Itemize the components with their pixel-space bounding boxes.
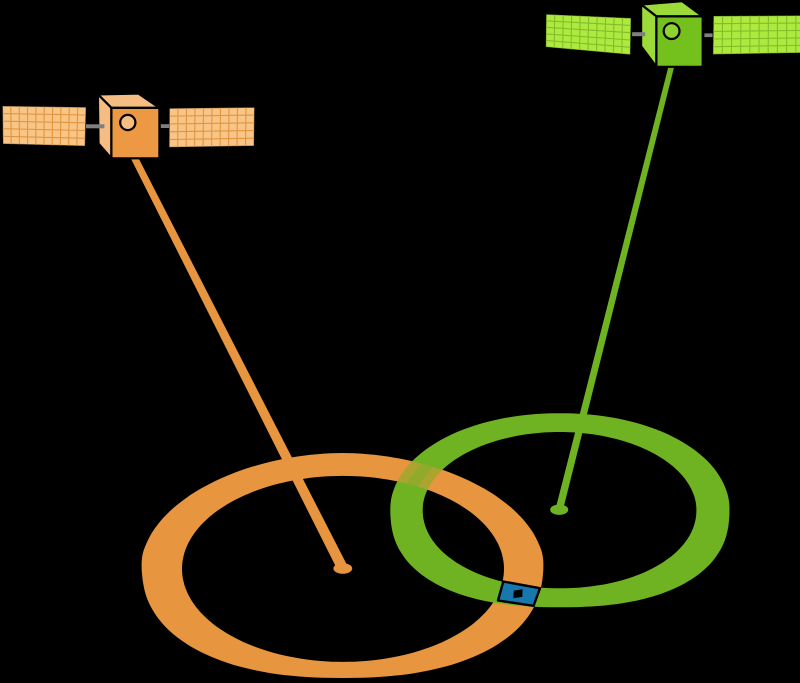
- green body lens circle: [664, 23, 680, 39]
- wire green range beam: [556, 61, 676, 510]
- orange body left face: [98, 94, 112, 158]
- green body left face: [641, 5, 656, 67]
- orange left boom rod: [86, 124, 104, 128]
- green left solar panel: [546, 14, 631, 54]
- orange range ring: [142, 453, 544, 678]
- intersection marker (blue patch): [498, 582, 540, 606]
- green right boom rod: [704, 33, 712, 37]
- green body front face: [656, 16, 702, 66]
- orange right boom rod: [161, 124, 169, 128]
- satellite 2 (green): [546, 1, 800, 67]
- intersection marker inner dot: [513, 589, 522, 598]
- orange right solar panel: [169, 107, 254, 147]
- orange body lens circle: [120, 115, 135, 130]
- node green ground point: [550, 505, 568, 515]
- wire orange range beam: [130, 154, 347, 571]
- ring overlap blend middle strip: [406, 423, 712, 598]
- green range ring: [390, 413, 729, 607]
- orange left solar panel: [3, 106, 87, 146]
- green left boom rod: [632, 32, 645, 36]
- satellite 1 (orange): [3, 94, 255, 159]
- orange body top face: [98, 94, 159, 108]
- orange body front face: [111, 108, 159, 158]
- green right solar panel: [713, 16, 800, 55]
- node orange ground point: [333, 563, 352, 574]
- ring overlap blend (upper intersection): [142, 423, 713, 678]
- green body top face: [641, 1, 703, 16]
